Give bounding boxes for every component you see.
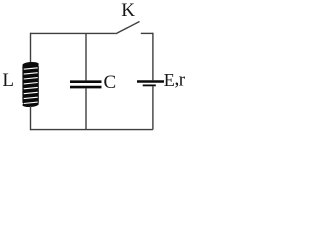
wire left branch upper (top wire to L)	[30, 33, 32, 63]
svg-text:L: L	[2, 70, 14, 91]
battery E,r long plate	[137, 80, 164, 83]
svg-text:C: C	[104, 72, 117, 93]
wire right branch lower (battery - to bottom)	[152, 86, 154, 129]
inductor L coil	[22, 61, 39, 107]
switch K right contact wire	[141, 32, 153, 34]
svg-text:r: r	[179, 70, 186, 91]
wire middle branch lower (C to bottom wire)	[85, 88, 87, 129]
battery E,r short plate	[143, 84, 156, 86]
wire bottom horizontal	[31, 129, 153, 131]
switch K blade (open)	[116, 22, 140, 34]
capacitor C top plate	[70, 80, 102, 83]
svg-text:K: K	[121, 0, 135, 21]
wire right branch upper (switch to battery +)	[152, 33, 154, 80]
capacitor C bottom plate	[70, 86, 102, 89]
svg-text:E: E	[164, 70, 175, 90]
wire middle branch upper (top wire to C)	[85, 33, 87, 80]
wire top-left horizontal (node between L and switch)	[31, 32, 116, 34]
wire left branch lower (L to bottom wire)	[30, 106, 32, 130]
